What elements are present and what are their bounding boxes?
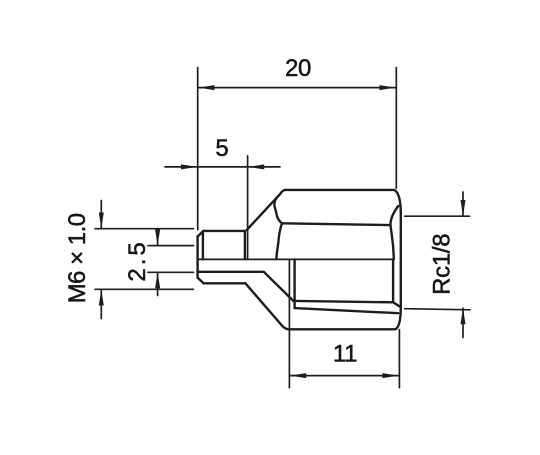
dim Rc1/8: top arrow tail — [462, 192, 464, 216]
arrowhead 11 right — [382, 373, 398, 378]
stub right edge — [244, 231, 246, 259]
svg-text:20: 20 — [285, 55, 311, 82]
svg-text:5: 5 — [215, 135, 228, 162]
dim 20: extension line left — [197, 68, 199, 230]
hole cone expansion — [264, 272, 294, 301]
dim 5: extension line right — [247, 156, 249, 260]
stub top edge — [204, 230, 246, 232]
svg-text:2.5: 2.5 — [124, 239, 151, 281]
stub thread chamfer line — [202, 231, 204, 259]
thread crest line — [295, 301, 394, 302]
arrowhead 2.5 top — [155, 230, 160, 246]
svg-text:11: 11 — [333, 341, 357, 368]
internal chamfer vertical — [392, 259, 394, 302]
dim 11: extension line left — [288, 260, 290, 388]
arrowhead 20 right — [380, 85, 396, 90]
svg-text:Rc1/8: Rc1/8 — [429, 234, 456, 295]
arrowhead M6 bottom — [99, 289, 104, 305]
arrowhead 20 left — [198, 85, 214, 90]
arrowhead 5 left — [181, 164, 197, 169]
taper cone bottom diagonal — [245, 283, 288, 329]
thread end vertical — [293, 259, 295, 308]
dim 20: dimension line — [198, 87, 396, 89]
stub bottom edge — [204, 282, 246, 284]
dim 2.5: top arrow tail — [157, 229, 159, 246]
dim Rc1/8: extension line bottom — [405, 309, 470, 310]
dim Rc1/8: bottom arrow tail — [462, 308, 464, 337]
hex bottom-right chamfer curve — [395, 307, 401, 330]
dim 2.5: bottom arrow tail — [157, 272, 159, 295]
arrowhead Rc bottom — [461, 308, 466, 324]
hex flat boundary line top — [282, 223, 390, 225]
thread root line — [295, 308, 399, 313]
stub bottom-left chamfer — [198, 278, 204, 283]
dim 11: extension line right — [398, 330, 400, 388]
dim M6: extension line top — [95, 228, 194, 230]
dim 5: dimension line with outside tails — [165, 166, 280, 168]
hex right-end chamfer curve — [390, 206, 398, 259]
internal chamfer diagonal — [393, 302, 401, 307]
hex left cone intersection curve — [274, 196, 282, 259]
hex top-right chamfer curve — [394, 190, 401, 214]
dim 20: extension line right — [395, 68, 397, 189]
dim M6: top arrow tail — [100, 201, 102, 229]
stub left edge — [196, 236, 198, 278]
hole wall bottom (section) — [198, 271, 264, 273]
svg-text:M6 × 1.0: M6 × 1.0 — [64, 213, 91, 303]
stub top-left chamfer — [198, 231, 204, 236]
arrowhead M6 top — [99, 213, 104, 229]
hex bottom edge — [289, 328, 396, 330]
arrowhead Rc top — [461, 200, 466, 216]
centerline — [198, 258, 394, 260]
dim 11: dimension line — [290, 375, 399, 377]
dim M6: extension line bottom — [95, 288, 194, 290]
dim 2.5: extension line bottom — [148, 271, 194, 273]
arrowhead 11 left — [290, 373, 306, 378]
right end face — [400, 214, 402, 307]
dim M6: bottom arrow tail — [100, 290, 102, 319]
dim Rc1/8: extension line top — [405, 215, 470, 217]
arrowhead 5 right — [248, 164, 264, 169]
dim 2.5: extension line top — [148, 245, 194, 247]
hex top edge — [285, 189, 394, 191]
taper cone top diagonal — [247, 190, 285, 230]
arrowhead 2.5 bottom — [155, 272, 160, 288]
